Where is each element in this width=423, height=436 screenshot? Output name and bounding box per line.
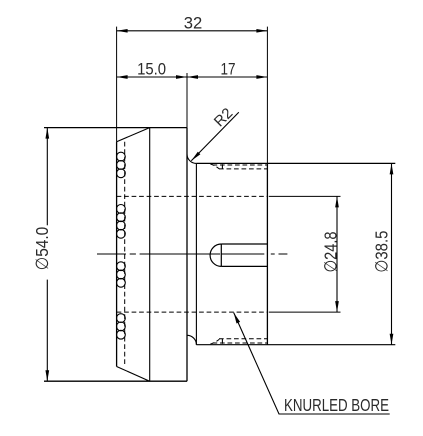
leader line knurled bore bbox=[234, 313, 390, 414]
extension line left for 32 and 15.0 bbox=[116, 27, 118, 142]
dia38.5 dimension line bbox=[391, 163, 393, 344]
svg-text:∅24.8: ∅24.8 bbox=[321, 232, 341, 273]
flange left knurled edge bbox=[116, 142, 118, 367]
arrow 17 right bbox=[256, 75, 267, 79]
dimension line 15.0 and 17 bbox=[117, 76, 268, 78]
knurl bore lead-in curve top bbox=[210, 164, 219, 169]
svg-text:15.0: 15.0 bbox=[137, 60, 166, 79]
cylinder right end edge bbox=[266, 163, 268, 344]
svg-text:32: 32 bbox=[184, 14, 203, 33]
arrow dia38.5 bottom bbox=[390, 334, 394, 345]
fillet arc R2 bottom bbox=[187, 335, 196, 344]
extension line middle for 15.0/17 bbox=[186, 73, 188, 128]
slot bottom line bbox=[221, 265, 267, 267]
centerline axis bbox=[97, 253, 287, 255]
bore hidden line bottom bbox=[117, 311, 268, 313]
arrow 15.0 right bbox=[176, 75, 187, 79]
chamfer tangent line bbox=[149, 128, 151, 382]
slot chord line bbox=[220, 244, 222, 266]
arrow 32 left bbox=[117, 29, 128, 33]
dia24.8 extension line bottom bbox=[269, 311, 341, 313]
slot round end arc bbox=[210, 244, 221, 266]
extension line right for 32 and 17 bbox=[266, 27, 268, 164]
cylinder bottom edge with extension to dia38.5 bbox=[196, 344, 395, 346]
cylinder top edge with extension to dia38.5 bbox=[196, 162, 395, 164]
arrow dia54 top bbox=[45, 128, 49, 139]
dia54 dimension line lower segment bbox=[46, 280, 48, 382]
arrow 32 right bbox=[256, 29, 267, 33]
arrow knurled bore leader bbox=[234, 313, 240, 324]
arrow dia54 bottom bbox=[45, 370, 49, 381]
knurl bore hidden line top bbox=[219, 168, 267, 170]
arrow R2 leader bbox=[191, 152, 200, 161]
arrow dia24.8 bottom bbox=[335, 301, 339, 312]
arrow dia24.8 top bbox=[335, 196, 339, 207]
bore hidden line top bbox=[117, 195, 268, 197]
svg-text:17: 17 bbox=[221, 60, 236, 79]
arrow 15.0 left bbox=[117, 75, 128, 79]
knurl scallop group 3 bbox=[117, 262, 126, 271]
knurl bore hidden line bottom bbox=[219, 338, 267, 340]
flange top edge with extension to dia54 dimension bbox=[44, 127, 187, 129]
flange bottom edge with extension to dia54 dimension bbox=[44, 380, 187, 382]
flange bottom-left chamfer bbox=[117, 367, 150, 382]
arrow dia38.5 top bbox=[390, 163, 394, 174]
fillet arc R2 top bbox=[187, 154, 196, 163]
svg-text:∅38.5: ∅38.5 bbox=[372, 231, 392, 273]
knurl end tick bottom bbox=[221, 339, 223, 344]
dia54 dimension line upper segment bbox=[46, 128, 48, 226]
flange right step face bbox=[186, 128, 188, 382]
svg-text:KNURLED BORE: KNURLED BORE bbox=[284, 395, 389, 415]
knurl scallop group 1 bbox=[117, 152, 126, 161]
dia24.8 dimension line bbox=[336, 196, 338, 312]
knurl minor hidden vertical line bbox=[124, 142, 126, 367]
knurl bore lead-in curve bottom bbox=[210, 339, 219, 344]
knurl bore crest hidden line bottom bbox=[213, 342, 268, 344]
knurl scallop group 4 bbox=[117, 314, 126, 323]
dia24.8 extension line top bbox=[269, 195, 341, 197]
flange top-left chamfer bbox=[117, 128, 150, 142]
arrow 17 left bbox=[187, 75, 198, 79]
svg-text:∅54.0: ∅54.0 bbox=[32, 227, 52, 271]
leader line R2 bbox=[191, 112, 239, 160]
knurl end tick top bbox=[221, 164, 223, 169]
slot top line bbox=[221, 243, 267, 245]
knurl scallop group 2 bbox=[117, 205, 126, 214]
dimension line 32 bbox=[117, 30, 268, 32]
fillet tangent line bbox=[195, 163, 197, 344]
knurl bore crest hidden line top bbox=[213, 164, 268, 166]
